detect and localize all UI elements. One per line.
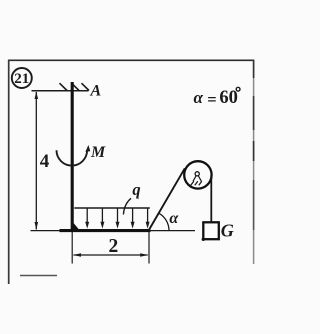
load arrow 1 xyxy=(85,208,89,229)
frame right border dark segment 1 xyxy=(253,60,255,78)
rope diagonal xyxy=(148,168,185,231)
dimension 4 bottom arrowhead xyxy=(35,222,39,230)
dimension 4 top arrowhead xyxy=(35,92,39,100)
dimension 4 line xyxy=(35,92,37,230)
pulley pin hatch 1 xyxy=(191,181,194,185)
column vertical bar xyxy=(71,82,74,231)
svg-text:2: 2 xyxy=(109,236,119,257)
weight box G xyxy=(203,222,219,239)
pulley pin right leg xyxy=(198,176,201,182)
pulley pin hatch 3 xyxy=(199,181,202,185)
wall line at support A xyxy=(32,90,89,92)
baseline right of corner xyxy=(149,230,195,232)
q leader line xyxy=(123,198,131,214)
dimension 2 left arrowhead xyxy=(73,253,81,257)
moment arrowhead xyxy=(85,145,90,152)
distributed load top line xyxy=(74,207,150,209)
svg-text:α = 60: α = 60 xyxy=(194,88,238,109)
frame right border xyxy=(253,60,255,264)
dimension 2 line xyxy=(74,254,148,256)
svg-text:G: G xyxy=(221,221,234,241)
wall hatch 1 xyxy=(60,83,68,90)
frame right border dark segment 3 xyxy=(253,141,255,161)
pulley xyxy=(184,161,211,188)
frame top border xyxy=(8,59,254,61)
ink blob at box corner xyxy=(202,238,205,241)
rope vertical xyxy=(210,175,212,222)
pulley axle pin circle xyxy=(195,172,199,176)
wall hatch 2 xyxy=(72,83,80,90)
pulley pin hatch 2 xyxy=(195,181,198,185)
problem number badge 21 xyxy=(12,68,32,88)
dimension 2 left extension xyxy=(71,232,73,264)
moment arc M xyxy=(57,150,88,165)
load arrow 4 xyxy=(131,208,135,229)
dimension 2 right extension xyxy=(148,232,150,264)
wall hatch 3 xyxy=(82,83,90,90)
svg-text:α: α xyxy=(169,210,179,227)
beam thin left extension xyxy=(31,230,61,232)
svg-text:A: A xyxy=(90,83,102,100)
angle arc xyxy=(159,213,169,230)
load arrow 5 xyxy=(146,208,150,229)
svg-text:21: 21 xyxy=(14,71,29,87)
angle value label alpha = 60 deg xyxy=(194,87,241,109)
dimension 2 right arrowhead xyxy=(140,253,148,257)
stray line bottom left xyxy=(20,275,57,277)
load arrow 3 xyxy=(116,208,120,229)
beam xyxy=(60,229,151,232)
pulley pin left leg xyxy=(193,176,196,182)
corner fillet xyxy=(74,223,81,231)
load arrow 2 xyxy=(100,208,104,229)
frame right border dark segment 4 xyxy=(253,180,255,230)
svg-text:q: q xyxy=(132,180,140,199)
frame left border xyxy=(8,60,10,284)
frame right border dark segment 2 xyxy=(253,96,255,130)
svg-text:M: M xyxy=(90,144,106,161)
svg-text:4: 4 xyxy=(40,151,50,172)
